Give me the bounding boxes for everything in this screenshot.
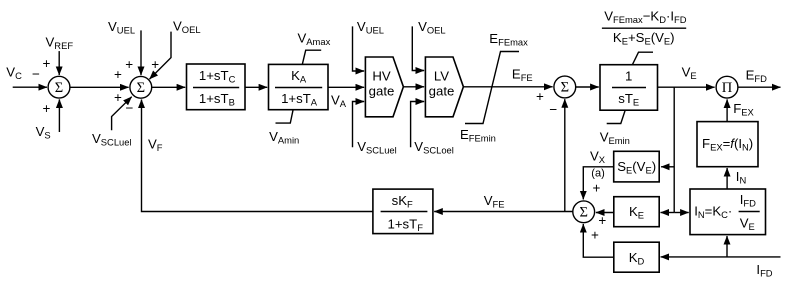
svg-text:VFEmax−KD·IFD: VFEmax−KD·IFD [604,8,687,25]
wire Vuel drop [140,30,142,75]
svg-text:gate: gate [369,83,395,98]
wire S1 to S2 [70,86,129,88]
svg-text:IFD: IFD [756,262,772,279]
svg-text:IFD: IFD [740,192,756,209]
svg-text:−: − [32,67,40,82]
svg-text:−: − [549,102,557,117]
wire Vx from SE to S4 [583,167,613,200]
svg-text:sKF: sKF [392,193,413,210]
wire Vc input [13,86,47,88]
svg-text:KE: KE [629,204,644,221]
wire VE branch down [673,87,675,212]
svg-text:VA: VA [331,93,347,110]
wire TGR to AVR [245,86,267,88]
svg-text:VUEL: VUEL [108,19,135,36]
svg-text:EFEmin: EFEmin [460,127,496,144]
svg-text:VAmin: VAmin [269,129,299,146]
svg-text:VE: VE [740,216,755,233]
wire HV gate to LV gate [403,86,424,88]
wire S4 output VFE to washout [434,211,573,213]
svg-text:+: + [591,227,599,242]
wire Vscluel into HV gate [353,102,365,148]
block AVR KA/(1+sTA) [269,64,329,109]
wire Vscloel into LV gate [411,102,425,148]
svg-text:+: + [43,56,51,71]
block KE [614,197,659,227]
svg-text:+: + [114,90,122,105]
svg-text:KE+SE(VE): KE+SE(VE) [613,30,675,47]
svg-text:+: + [536,89,544,104]
svg-text:VFE: VFE [484,193,505,210]
svg-text:VOEL: VOEL [173,18,201,35]
svg-text:KA: KA [291,68,307,85]
svg-text:FEX=f(IN): FEX=f(IN) [702,136,753,153]
wire Vscluel diagonal [112,97,132,131]
limit mark VAmax [302,50,321,64]
gate LV [425,57,463,117]
svg-text:+: + [43,101,51,116]
wire LV gate to S3 with Efe [463,86,552,88]
summing junction S3 [554,76,576,98]
wire KE to S4 [596,212,614,214]
svg-text:VREF: VREF [46,34,74,51]
svg-text:EFE: EFE [512,66,533,83]
svg-text:KD: KD [629,250,645,267]
block integrator 1/sTE [600,65,658,111]
gate HV [365,57,403,117]
wire KD to S4 [583,224,614,257]
svg-text:EFEmax: EFEmax [489,31,528,48]
svg-text:+: + [125,57,133,72]
svg-text:VOEL: VOEL [418,19,446,35]
limiter slash EFE [465,52,519,124]
svg-text:+: + [592,180,600,195]
svg-text:LV: LV [434,69,449,84]
svg-text:Π: Π [722,80,733,96]
wire VFE rise into S3 [564,99,566,211]
wire Vs rise [58,99,60,132]
svg-text:VAmax: VAmax [298,31,331,48]
summing junction S4 [573,201,595,223]
svg-text:IN=KC·: IN=KC· [694,203,732,220]
svg-text:+: + [598,213,606,228]
wire VE into SE block [661,166,674,168]
svg-text:VF: VF [148,137,163,154]
wire VE into IN block [674,212,689,214]
svg-text:−: − [126,101,134,116]
svg-text:+: + [114,67,122,82]
svg-text:SE(VE): SE(VE) [617,159,656,176]
svg-text:1+sTC: 1+sTC [199,68,236,85]
svg-text:sTE: sTE [618,91,639,108]
block TGR (1+sTC)/(1+sTB) [187,64,246,110]
wire FEX rise into multiplier [726,99,728,121]
svg-text:FEX: FEX [733,101,754,118]
wire VE into KE block [661,212,675,214]
svg-text:IN: IN [736,169,746,186]
limit mark VEmin [607,110,626,123]
summing junction S2 [130,76,152,98]
block KD [614,242,659,272]
svg-text:VX: VX [590,149,606,166]
wire integrator to multiplier VE [658,86,715,88]
svg-text:VSCLuel: VSCLuel [92,131,132,148]
wire IN rise into FEX block [726,168,728,189]
svg-text:HV: HV [372,69,391,84]
svg-text:VSCLoel: VSCLoel [414,139,454,156]
wire IFD branch into IN block [726,236,728,257]
svg-text:1+sTB: 1+sTB [199,91,235,108]
multiplier PI [716,76,738,98]
wire Voel into LV gate [412,26,424,70]
svg-text:Σ: Σ [579,205,587,221]
wire S2 to TGR [152,86,186,88]
svg-text:VS: VS [36,124,51,141]
svg-text:VUEL: VUEL [357,19,384,35]
svg-text:1+sTF: 1+sTF [388,217,424,234]
svg-text:(a): (a) [591,168,604,180]
wire EFD output [738,86,781,88]
wire IFD input [661,256,781,258]
svg-text:gate: gate [429,83,455,98]
svg-text:Σ: Σ [561,80,569,96]
svg-text:VEmin: VEmin [600,129,630,146]
wire AVR to HV gate [328,86,364,88]
wire Vuel into HV gate [353,26,365,71]
summing junction S1 [48,76,70,98]
wire Voel diagonal [150,32,172,80]
wire Vf rise into S2 [142,100,373,212]
block washout sKF/(1+sTF) [373,189,433,234]
svg-text:+: + [151,57,159,72]
block IN=KC*IFD/VE [690,189,766,235]
block SE(VE) [614,151,660,182]
svg-text:1: 1 [625,68,632,83]
svg-text:VC: VC [6,65,22,82]
svg-text:1+sTA: 1+sTA [281,91,318,108]
limit mark VAmin [276,110,294,123]
wire Vref drop [58,51,60,75]
block FEX=f(IN) [697,122,758,167]
svg-text:Σ: Σ [55,80,63,96]
limit mark VFEmax expression [632,52,653,64]
svg-text:VE: VE [682,65,697,82]
svg-text:Σ: Σ [137,80,145,96]
wire S3 to integrator [576,86,599,88]
svg-text:VSCLuel: VSCLuel [357,139,397,156]
svg-text:EFD: EFD [746,68,768,85]
